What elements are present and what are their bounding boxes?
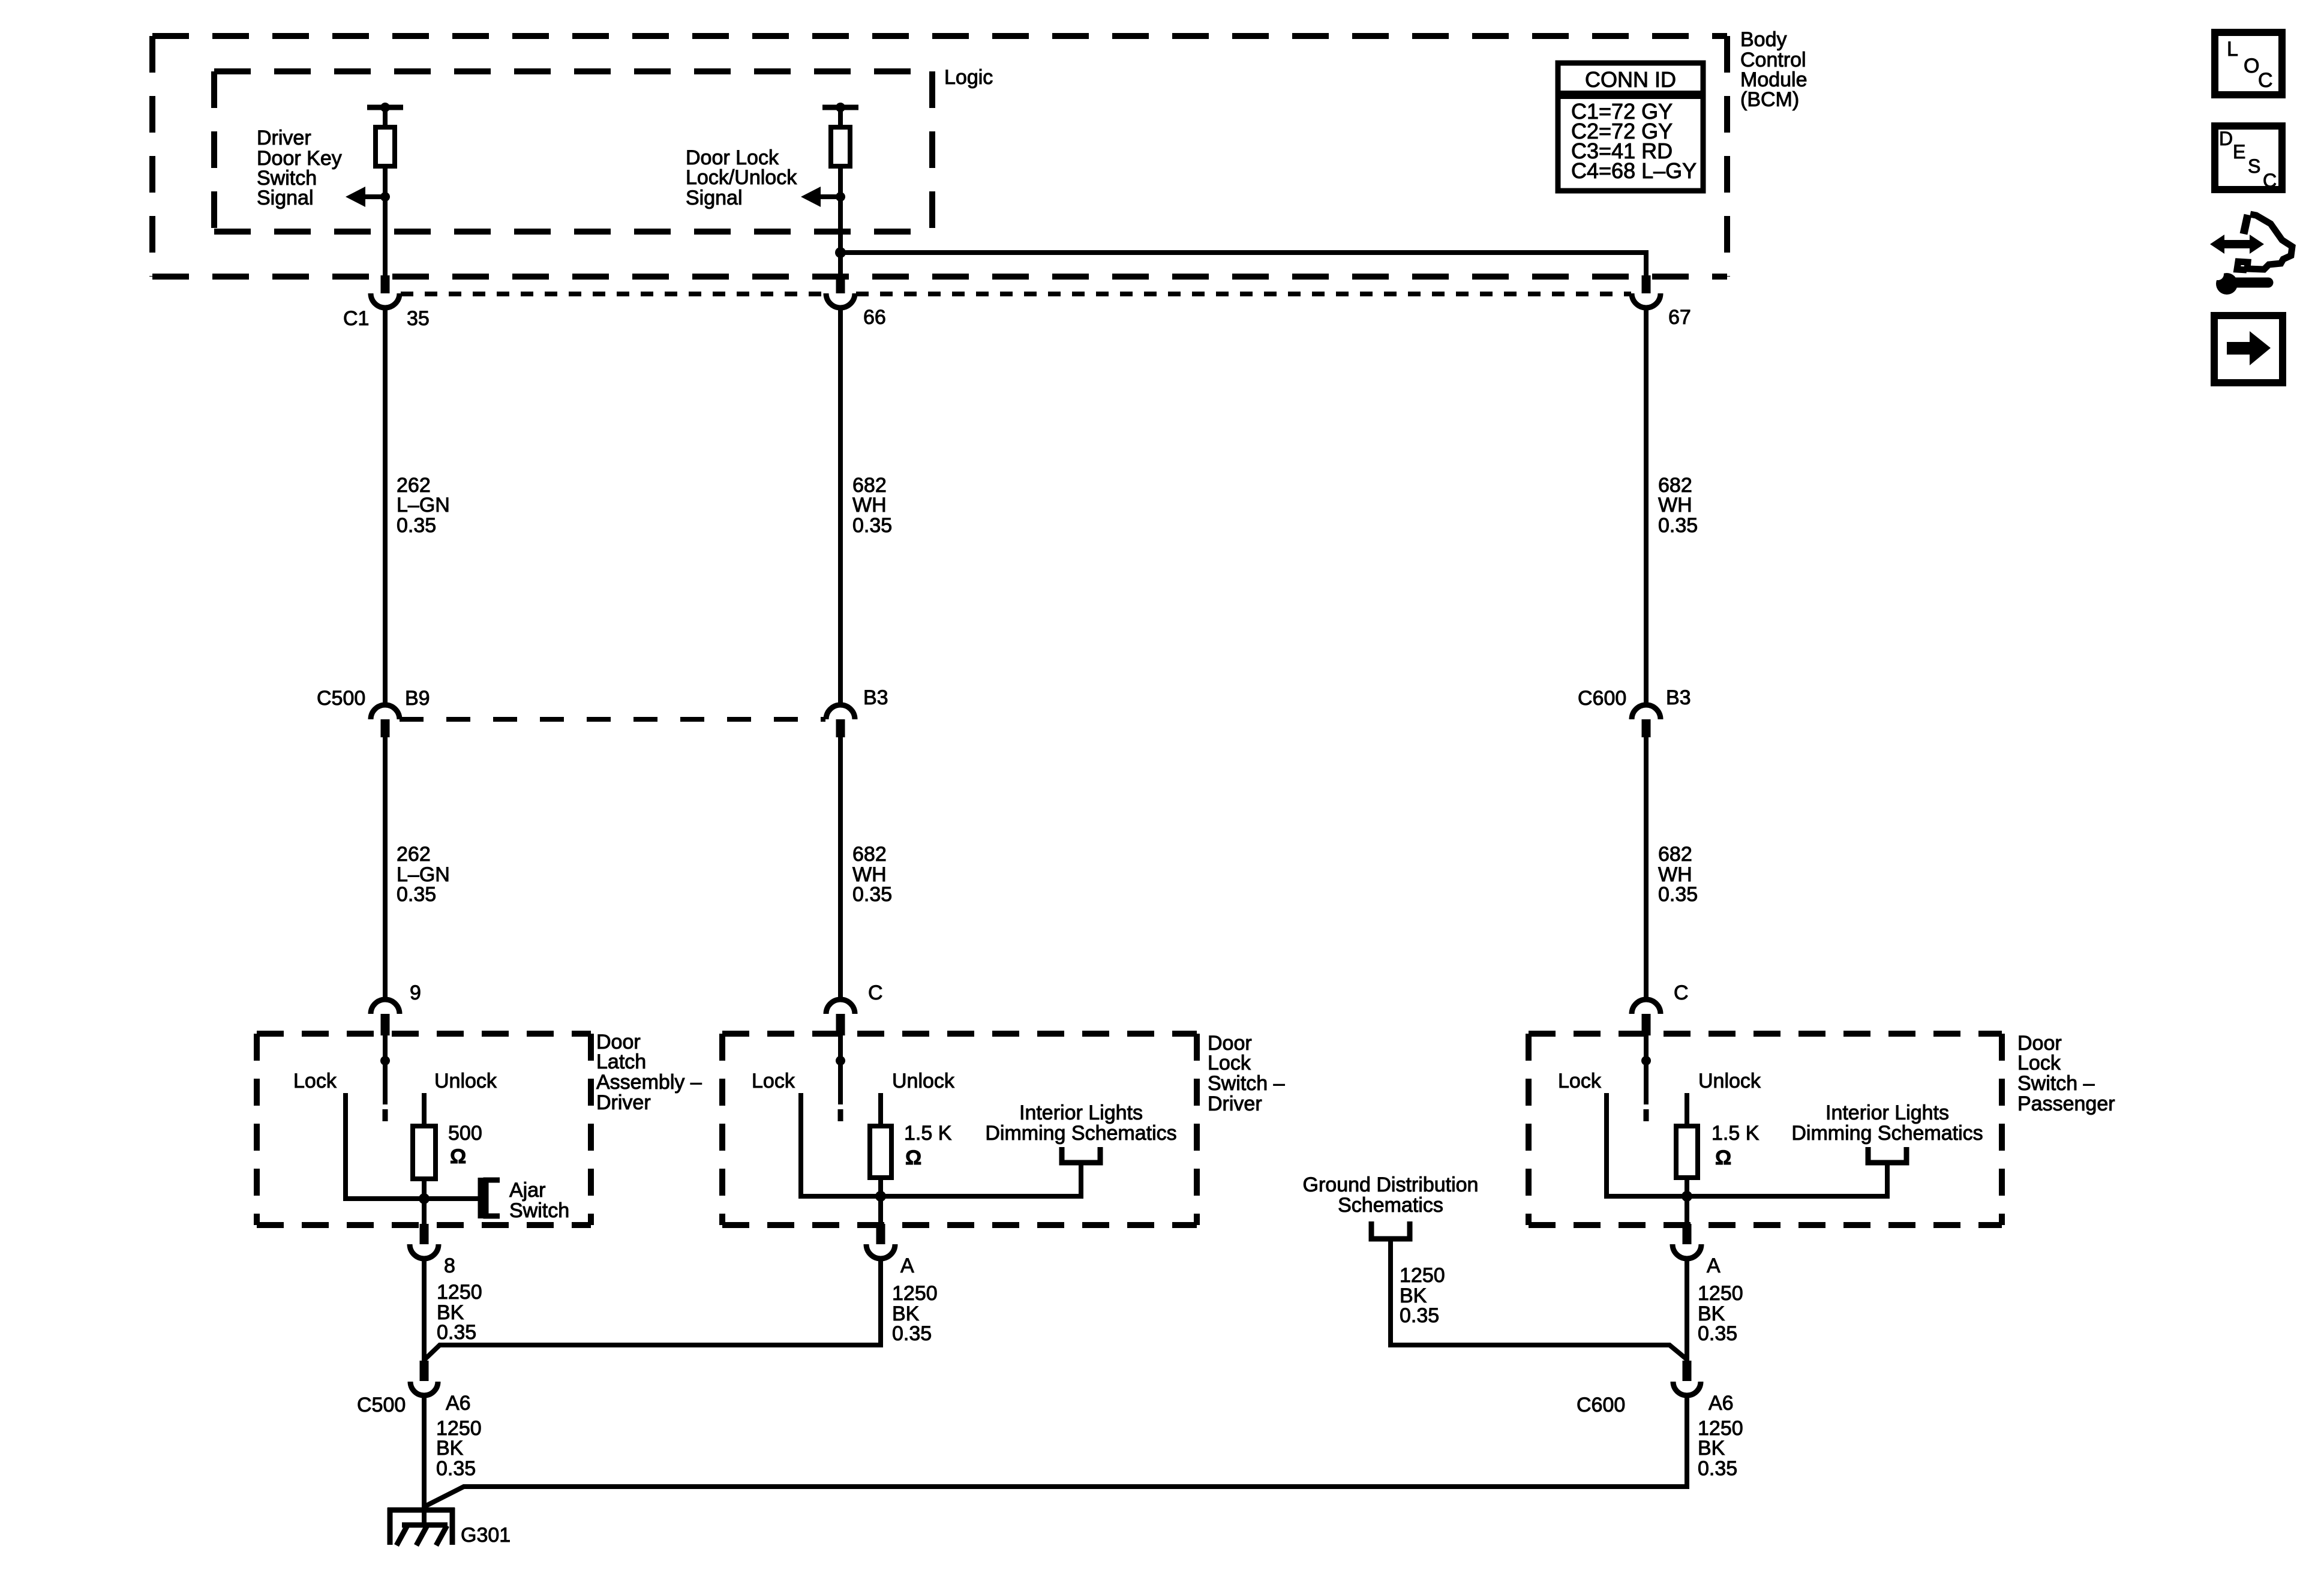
ground distribution wire and bus bbox=[1391, 1239, 1687, 1359]
resistor R4 1.5K bbox=[870, 1126, 891, 1178]
svg-text:0.35: 0.35 bbox=[397, 514, 436, 537]
forward arrow icon bbox=[2214, 316, 2283, 383]
svg-text:Switch –: Switch – bbox=[2017, 1072, 2095, 1095]
svg-text:(BCM): (BCM) bbox=[1740, 88, 1799, 111]
interior lights bracket passenger bbox=[1868, 1147, 1906, 1163]
label Ground Distribution Schematics bbox=[1303, 1173, 1479, 1217]
svg-text:Signal: Signal bbox=[686, 187, 743, 209]
svg-text:BK: BK bbox=[1698, 1437, 1725, 1460]
label Interior Lights Dimming driver bbox=[985, 1101, 1176, 1145]
svg-text:0.35: 0.35 bbox=[437, 1321, 476, 1344]
connector terminal C passenger bbox=[1632, 999, 1661, 1035]
connector B3 mid bbox=[826, 705, 855, 737]
svg-text:0.35: 0.35 bbox=[436, 1457, 476, 1480]
svg-text:66: 66 bbox=[863, 306, 886, 329]
svg-text:E: E bbox=[2233, 141, 2245, 163]
wire A driver drop and bus bbox=[425, 1259, 881, 1359]
svg-text:1.5 K: 1.5 K bbox=[1712, 1122, 1759, 1145]
svg-text:C: C bbox=[2258, 69, 2273, 92]
switch common feed driver bbox=[836, 1035, 845, 1065]
connector C1 terminal 67 bbox=[1632, 275, 1661, 308]
latch output wire bbox=[422, 1199, 427, 1225]
wire C600 to terminal C bbox=[1644, 737, 1649, 1000]
svg-text:0.35: 0.35 bbox=[852, 514, 892, 537]
svg-text:0.35: 0.35 bbox=[1698, 1457, 1737, 1480]
wire 682 to C600 bbox=[1644, 308, 1649, 706]
connector C500 terminal B9 bbox=[371, 705, 400, 737]
svg-text:Unlock: Unlock bbox=[434, 1070, 497, 1092]
svg-text:BK: BK bbox=[436, 1437, 464, 1460]
wire branch 66 to 67 bbox=[835, 247, 1646, 277]
resistor R2 door lock signal bbox=[831, 110, 850, 166]
passenger output wire bbox=[1685, 1196, 1689, 1225]
svg-text:WH: WH bbox=[852, 494, 887, 517]
svg-text:Lock: Lock bbox=[1558, 1070, 1602, 1092]
connector terminal A passenger bbox=[1673, 1224, 1701, 1259]
svg-text:Body: Body bbox=[1740, 28, 1787, 51]
svg-text:Unlock: Unlock bbox=[892, 1070, 955, 1092]
svg-text:Switch –: Switch – bbox=[1208, 1072, 1285, 1095]
wire 8 drop bbox=[422, 1259, 427, 1362]
signal arrow at R1 driver door key switch bbox=[346, 187, 390, 207]
svg-text:O: O bbox=[2244, 55, 2259, 77]
svg-text:0.35: 0.35 bbox=[397, 883, 436, 906]
svg-text:0.35: 0.35 bbox=[1698, 1322, 1737, 1345]
DESC icon bbox=[2215, 126, 2282, 191]
svg-text:C: C bbox=[1674, 981, 1689, 1004]
svg-text:Unlock: Unlock bbox=[1698, 1070, 1761, 1092]
svg-text:Ground Distribution: Ground Distribution bbox=[1303, 1173, 1479, 1196]
Unlock contact passenger bbox=[1685, 1093, 1689, 1126]
ground G301 bbox=[388, 1508, 455, 1545]
switch blade latch bbox=[383, 1061, 388, 1121]
LOC icon bbox=[2215, 32, 2282, 95]
wire 262 to C500 bbox=[383, 308, 388, 706]
resistor R5 bottom lead bbox=[1685, 1176, 1689, 1196]
svg-text:1.5 K: 1.5 K bbox=[904, 1122, 952, 1145]
svg-text:Dimming Schematics: Dimming Schematics bbox=[1791, 1122, 1983, 1145]
connector terminal 9 bbox=[371, 999, 400, 1035]
svg-text:C4=68 L–GY: C4=68 L–GY bbox=[1571, 158, 1697, 183]
svg-text:B3: B3 bbox=[863, 686, 888, 709]
signal arrow at R2 door lock signal bbox=[801, 187, 845, 207]
connector terminal C driver bbox=[826, 999, 855, 1035]
svg-text:G301: G301 bbox=[461, 1524, 511, 1547]
Door Lock Switch Passenger dashed box bbox=[1529, 1034, 2002, 1225]
Door Lock Switch Driver dashed box bbox=[722, 1034, 1197, 1225]
ajar switch symbol bbox=[481, 1178, 500, 1218]
svg-text:Ω: Ω bbox=[450, 1145, 466, 1168]
svg-text:Logic: Logic bbox=[944, 66, 993, 89]
connector row dotted line bbox=[401, 292, 1631, 296]
svg-text:Passenger: Passenger bbox=[2017, 1092, 2115, 1115]
svg-text:Lock: Lock bbox=[293, 1070, 337, 1092]
svg-text:0.35: 0.35 bbox=[852, 883, 892, 906]
svg-text:Latch: Latch bbox=[596, 1050, 646, 1073]
svg-text:CONN ID: CONN ID bbox=[1585, 67, 1676, 92]
Unlock contact latch bbox=[422, 1093, 427, 1126]
resistor R4 bottom lead bbox=[878, 1176, 883, 1196]
Logic dashed box bbox=[214, 71, 932, 232]
wire C600 A6 to ground bus bbox=[425, 1395, 1687, 1506]
inline connector dashed line bbox=[400, 717, 825, 722]
connector C1 terminal 66 bbox=[826, 275, 855, 308]
switch blade driver bbox=[838, 1061, 843, 1121]
vehicle service icon bbox=[2210, 214, 2292, 295]
svg-text:Lock/Unlock: Lock/Unlock bbox=[686, 166, 797, 189]
svg-text:Interior Lights: Interior Lights bbox=[1019, 1101, 1143, 1124]
interior lights bracket driver bbox=[1062, 1147, 1100, 1163]
resistor R1 driver door key switch bbox=[376, 110, 395, 166]
svg-text:C600: C600 bbox=[1578, 687, 1626, 710]
svg-text:262: 262 bbox=[397, 843, 431, 866]
svg-text:A: A bbox=[900, 1254, 914, 1277]
svg-text:1250: 1250 bbox=[1400, 1264, 1445, 1287]
ground distribution bracket bbox=[1371, 1221, 1410, 1239]
resistor R2 door lock signal supply bar bbox=[822, 103, 858, 112]
wire 682 upper bbox=[838, 166, 843, 278]
svg-text:WH: WH bbox=[1658, 494, 1692, 517]
label Interior Lights Dimming passenger bbox=[1791, 1101, 1983, 1145]
svg-text:1250: 1250 bbox=[1698, 1282, 1743, 1305]
svg-text:0.35: 0.35 bbox=[1658, 514, 1698, 537]
CONN ID table frame bbox=[1558, 63, 1703, 191]
svg-text:C500: C500 bbox=[357, 1394, 406, 1416]
Lock contact and bus passenger bbox=[1607, 1093, 1887, 1202]
svg-text:Driver: Driver bbox=[1208, 1092, 1262, 1115]
svg-text:A: A bbox=[1707, 1254, 1721, 1277]
svg-text:B9: B9 bbox=[405, 687, 430, 710]
svg-text:Assembly –: Assembly – bbox=[596, 1071, 702, 1094]
svg-text:C1: C1 bbox=[343, 307, 369, 330]
connector C500 terminal A6 bbox=[410, 1361, 438, 1395]
svg-text:Lock: Lock bbox=[752, 1070, 795, 1092]
Lock contact and bus latch bbox=[346, 1093, 479, 1204]
svg-text:C: C bbox=[2263, 170, 2277, 191]
Door Latch Assembly dashed box bbox=[257, 1034, 591, 1225]
svg-text:Interior Lights: Interior Lights bbox=[1825, 1101, 1949, 1124]
svg-text:Schematics: Schematics bbox=[1338, 1194, 1443, 1217]
svg-text:1250: 1250 bbox=[437, 1281, 482, 1304]
wire C500 to terminal 9 bbox=[383, 737, 388, 1000]
svg-text:B3: B3 bbox=[1666, 686, 1691, 709]
resistor R1 driver door key switch supply bar bbox=[367, 103, 403, 112]
svg-text:500: 500 bbox=[448, 1122, 482, 1145]
connector terminal A driver bbox=[866, 1224, 895, 1259]
resistor R5 1.5K bbox=[1676, 1126, 1698, 1178]
svg-text:35: 35 bbox=[407, 307, 430, 330]
connector C600 terminal B3 bbox=[1632, 705, 1661, 737]
Lock contact and bus driver bbox=[801, 1093, 1081, 1202]
svg-text:Ajar: Ajar bbox=[509, 1179, 545, 1202]
svg-text:682: 682 bbox=[852, 843, 887, 866]
svg-text:0.35: 0.35 bbox=[1658, 883, 1698, 906]
svg-text:C600: C600 bbox=[1577, 1394, 1625, 1416]
svg-text:Dimming Schematics: Dimming Schematics bbox=[985, 1122, 1176, 1145]
svg-text:Ω: Ω bbox=[1715, 1146, 1731, 1169]
svg-text:Signal: Signal bbox=[257, 187, 314, 209]
svg-text:Driver: Driver bbox=[257, 127, 311, 149]
connector C1 terminal 35 bbox=[371, 275, 400, 308]
CONN ID rows bbox=[1571, 99, 1697, 183]
connector terminal 8 latch bbox=[410, 1224, 439, 1259]
svg-text:A6: A6 bbox=[1709, 1392, 1734, 1415]
svg-text:L: L bbox=[2227, 38, 2238, 61]
svg-text:Driver: Driver bbox=[596, 1091, 651, 1114]
svg-text:1250: 1250 bbox=[892, 1282, 938, 1305]
Unlock contact driver bbox=[878, 1093, 883, 1126]
svg-text:C500: C500 bbox=[317, 687, 365, 710]
switch blade passenger bbox=[1644, 1061, 1649, 1121]
switch common feed passenger bbox=[1641, 1035, 1651, 1065]
resistor R3 500 ohm bbox=[413, 1126, 436, 1179]
svg-text:8: 8 bbox=[444, 1254, 455, 1277]
connector C600 terminal A6 bbox=[1673, 1361, 1701, 1395]
switch common feed latch bbox=[380, 1035, 390, 1065]
svg-text:67: 67 bbox=[1668, 306, 1691, 329]
svg-text:L–GN: L–GN bbox=[397, 494, 450, 517]
wire 262 upper bbox=[383, 166, 388, 278]
svg-text:C: C bbox=[868, 981, 883, 1004]
svg-text:Switch: Switch bbox=[509, 1199, 569, 1222]
svg-text:Ω: Ω bbox=[905, 1146, 921, 1169]
driver output wire bbox=[878, 1196, 883, 1225]
svg-text:9: 9 bbox=[410, 981, 421, 1004]
wire C500 A6 to ground bbox=[422, 1395, 427, 1524]
resistor R3 bottom lead bbox=[422, 1178, 427, 1199]
svg-text:Lock: Lock bbox=[1208, 1052, 1251, 1074]
svg-text:0.35: 0.35 bbox=[892, 1322, 932, 1345]
svg-text:S: S bbox=[2248, 155, 2260, 177]
wire A passenger drop bbox=[1685, 1259, 1689, 1362]
svg-text:Lock: Lock bbox=[2017, 1052, 2061, 1074]
svg-text:0.35: 0.35 bbox=[1400, 1304, 1439, 1327]
svg-text:A6: A6 bbox=[446, 1392, 471, 1415]
svg-text:682: 682 bbox=[1658, 843, 1692, 866]
wire B3 to terminal C bbox=[838, 737, 843, 1000]
BCM module dashed box bbox=[152, 36, 1727, 277]
svg-text:D: D bbox=[2219, 128, 2233, 149]
wire 682 to B3 bbox=[838, 308, 843, 706]
